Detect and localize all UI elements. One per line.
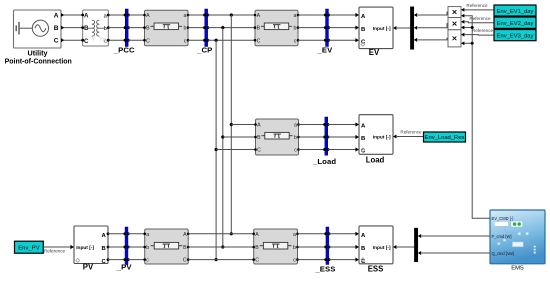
wire _PCC to pi-line 1 bbox=[128, 14, 144, 16]
wire utility to transformer bbox=[64, 39, 83, 41]
svg-text:_PCC: _PCC bbox=[113, 46, 135, 55]
measurement bus _EV bbox=[324, 9, 330, 47]
wire pi-line2 to _EV bus bbox=[298, 39, 325, 41]
wire pi-line1 to _CP bus bbox=[188, 39, 205, 41]
node tap junction top row bbox=[230, 13, 233, 16]
svg-text:C: C bbox=[102, 259, 107, 265]
pi-section line block bottom 2 bbox=[252, 229, 298, 264]
svg-text:B: B bbox=[361, 246, 365, 252]
wire Env_EV2_day reference to X2 bbox=[464, 21, 494, 24]
svg-text:B: B bbox=[361, 136, 365, 142]
port arrow product input bbox=[461, 14, 464, 18]
pi-section line block 1 top bbox=[143, 10, 189, 45]
data block Env_Load_Res bbox=[424, 132, 466, 142]
subsystem block ESS bbox=[359, 226, 393, 265]
wire tap to pi-line mid bbox=[216, 149, 255, 151]
subsystem block Load bbox=[359, 115, 393, 155]
wire pi-line bottom1 to bottom2 bbox=[188, 259, 254, 261]
svg-text:C: C bbox=[257, 148, 261, 154]
wire PV to _PV bus bbox=[108, 246, 125, 248]
wire tap to pi-line mid bbox=[223, 136, 256, 138]
wire _Load bus to Load block bbox=[328, 124, 356, 126]
data block Env_EV2_day bbox=[494, 17, 536, 28]
svg-text:Point-of-Connection: Point-of-Connection bbox=[5, 58, 72, 65]
wire _CP bus to pi-line 2 bbox=[208, 39, 255, 41]
wire Q_cmd to mux bbox=[418, 251, 421, 255]
svg-text:Env_EV1_day: Env_EV1_day bbox=[497, 9, 534, 15]
svg-text:C: C bbox=[54, 38, 59, 45]
svg-text:c: c bbox=[184, 38, 187, 44]
node junction bbox=[471, 26, 474, 29]
svg-text:B: B bbox=[54, 25, 59, 32]
wire _Load bus to Load block bbox=[328, 149, 356, 151]
wire transformer to _PCC bus bbox=[108, 27, 125, 29]
svg-text:a: a bbox=[184, 13, 187, 19]
data block Env_EV3_day bbox=[494, 30, 536, 41]
svg-text:PV: PV bbox=[83, 262, 94, 271]
svg-text:C: C bbox=[255, 258, 259, 264]
svg-text:EV: EV bbox=[369, 48, 380, 57]
svg-text:Env_EV2_day: Env_EV2_day bbox=[497, 21, 534, 27]
wire _CP bus to pi-line 2 bbox=[208, 14, 255, 16]
wire stub to X2 bbox=[464, 27, 472, 29]
svg-text:Env_EV3_day: Env_EV3_day bbox=[497, 33, 534, 39]
wire transformer to _PCC bus bbox=[108, 39, 125, 41]
svg-text:b: b bbox=[293, 245, 296, 251]
wire product to mux bbox=[414, 13, 417, 17]
wire product to mux bbox=[414, 38, 417, 42]
measurement bus _ESS bbox=[324, 227, 330, 265]
svg-text:a: a bbox=[294, 13, 297, 19]
wire Env_Load_Res to Load input bbox=[397, 136, 424, 138]
wire pi-line mid to _Load bus bbox=[299, 149, 325, 151]
svg-text:a: a bbox=[294, 123, 297, 129]
data block Env_PV bbox=[15, 241, 44, 253]
svg-text:_PV: _PV bbox=[116, 262, 133, 271]
svg-text:b: b bbox=[146, 245, 149, 251]
wire pi-line2 to _EV bus bbox=[298, 27, 325, 29]
wire EV input from mux bbox=[397, 27, 411, 29]
subsystem block EV bbox=[359, 7, 393, 49]
svg-text:a: a bbox=[293, 232, 296, 238]
wire Env_EV1_day reference to X1 bbox=[464, 9, 494, 11]
wire ESS input from mux bottom bbox=[397, 246, 415, 248]
svg-text:Input [-]: Input [-] bbox=[373, 135, 391, 141]
svg-text:EMS: EMS bbox=[511, 266, 524, 272]
data block Env_EV1_day bbox=[494, 5, 536, 16]
wire tap to pi-line mid bbox=[231, 124, 255, 126]
wire pi-line mid to _Load bus bbox=[299, 124, 325, 126]
pi-section line block middle bbox=[254, 119, 300, 155]
wire _CP bus to pi-line 2 bbox=[208, 27, 255, 29]
svg-text:Reference: Reference bbox=[44, 249, 66, 254]
wire utility to transformer bbox=[64, 14, 83, 16]
svg-text:A: A bbox=[361, 233, 366, 239]
wire utility to transformer bbox=[64, 27, 83, 29]
svg-text:A: A bbox=[54, 13, 59, 20]
wire _Load bus to Load block bbox=[328, 136, 356, 138]
svg-text:c: c bbox=[294, 38, 297, 44]
measurement bus _CP bbox=[203, 9, 209, 47]
svg-text:A: A bbox=[146, 13, 150, 19]
node junction bbox=[471, 42, 474, 45]
wire _PCC to pi-line 1 bbox=[128, 27, 144, 29]
three-phase transformer block bbox=[81, 10, 109, 46]
svg-text:_Load: _Load bbox=[312, 157, 336, 166]
port arrow product input bbox=[461, 8, 464, 12]
product block X1 bbox=[448, 7, 461, 18]
svg-text:Env_Load_Res: Env_Load_Res bbox=[425, 135, 465, 141]
svg-text:A: A bbox=[255, 232, 259, 238]
svg-text:Input [-]: Input [-] bbox=[373, 26, 391, 32]
wire pi-line1 to _CP bus bbox=[188, 14, 205, 16]
node tap junction top row bbox=[215, 39, 218, 42]
wire product to mux bbox=[414, 26, 417, 30]
wire _PV bus to pi-line bottom1 bbox=[128, 233, 145, 235]
port arrow product input bbox=[461, 20, 464, 24]
svg-text:C: C bbox=[183, 258, 187, 264]
svg-text:Reference: Reference bbox=[472, 28, 494, 33]
svg-text:_EV: _EV bbox=[316, 46, 333, 55]
svg-text:A: A bbox=[361, 124, 366, 130]
svg-text:A: A bbox=[102, 233, 107, 239]
wire pi-line bottom2 to _ESS bus bbox=[298, 233, 326, 235]
wire pi-line bottom1 to bottom2 bbox=[188, 246, 254, 248]
node tap junction top row bbox=[221, 26, 224, 29]
wire pi-line bottom1 to bottom2 bbox=[188, 233, 254, 235]
port arrow product input bbox=[461, 41, 464, 45]
port arrow product input bbox=[461, 33, 464, 37]
subsystem block PV bbox=[74, 226, 109, 265]
svg-text:b: b bbox=[184, 26, 187, 32]
wire _EV bus to EV block bbox=[329, 14, 356, 16]
svg-text:Reference: Reference bbox=[400, 130, 422, 135]
product block X2 bbox=[448, 18, 461, 30]
svg-text:Reference: Reference bbox=[466, 3, 488, 8]
product block X3 bbox=[448, 30, 461, 47]
svg-text:A: A bbox=[361, 14, 366, 20]
pi-section line block 2 top bbox=[254, 10, 300, 45]
svg-text:c: c bbox=[146, 258, 149, 264]
wire pi-line bottom2 to _ESS bus bbox=[298, 246, 326, 248]
svg-text:c: c bbox=[294, 148, 297, 154]
svg-text:A: A bbox=[257, 13, 261, 19]
svg-text:Load: Load bbox=[366, 156, 385, 165]
source block Utility Point-of-Connection bbox=[14, 10, 65, 48]
wire _ESS bus to ESS block bbox=[329, 246, 356, 248]
wire pi-line mid to _Load bus bbox=[299, 136, 325, 138]
wire _PCC to pi-line 1 bbox=[128, 39, 144, 41]
svg-text:b: b bbox=[104, 26, 107, 32]
port arrow product input bbox=[461, 26, 464, 30]
svg-text:B: B bbox=[102, 246, 106, 252]
wire _ESS bus to ESS block bbox=[329, 259, 356, 261]
svg-text:b: b bbox=[294, 135, 297, 141]
svg-text:A: A bbox=[257, 123, 261, 129]
wire Env_EV3_day reference to X3 bbox=[464, 34, 494, 37]
node tap junction bottom row bbox=[215, 258, 218, 261]
node tap junction bottom row bbox=[230, 232, 233, 235]
wire pi-line bottom2 to _ESS bus bbox=[298, 259, 326, 261]
wire PV to _PV bus bbox=[108, 259, 125, 261]
svg-text:B: B bbox=[84, 25, 89, 32]
wire pi-line1 to _CP bus bbox=[188, 27, 205, 29]
svg-text:c: c bbox=[293, 258, 296, 264]
svg-text:Y: Y bbox=[91, 37, 95, 43]
measurement bus _PV bbox=[123, 227, 129, 265]
mux top for EV commands bbox=[410, 7, 413, 50]
svg-text:Utility: Utility bbox=[28, 48, 48, 57]
svg-text:C: C bbox=[146, 38, 150, 44]
svg-text:ESS: ESS bbox=[368, 265, 384, 274]
wire _PV bus to pi-line bottom1 bbox=[128, 246, 145, 248]
pi-section line block bottom 1 flipped bbox=[143, 229, 189, 264]
wire pi-line2 to _EV bus bbox=[298, 14, 325, 16]
wire Env_PV reference to PV bbox=[43, 246, 70, 248]
svg-text:B: B bbox=[146, 26, 150, 32]
svg-text:A: A bbox=[84, 13, 89, 20]
svg-text:Input [-]: Input [-] bbox=[76, 245, 94, 251]
wire PV to _PV bus bbox=[108, 233, 125, 235]
svg-text:Input [-]: Input [-] bbox=[373, 245, 391, 251]
svg-text:_CP: _CP bbox=[196, 46, 212, 55]
wire _PV bus to pi-line bottom1 bbox=[128, 259, 145, 261]
svg-text:C: C bbox=[257, 38, 261, 44]
wire EMS EV_CMD to products bbox=[464, 16, 490, 219]
svg-text:B: B bbox=[257, 135, 261, 141]
svg-text:C: C bbox=[84, 38, 89, 45]
wire _EV bus to EV block bbox=[329, 39, 356, 41]
svg-text:B: B bbox=[257, 26, 261, 32]
node tap junction middle row bbox=[221, 135, 224, 138]
wire _ESS bus to ESS block bbox=[329, 233, 356, 235]
vertical bus tie wire bbox=[222, 28, 224, 247]
svg-text:a: a bbox=[146, 232, 149, 238]
vertical bus tie wire bbox=[230, 15, 232, 234]
measurement bus _Load bbox=[323, 117, 329, 155]
svg-text:EV_CMD [-]: EV_CMD [-] bbox=[492, 216, 514, 221]
svg-text:b: b bbox=[294, 26, 297, 32]
svg-text:P_cmd [W]: P_cmd [W] bbox=[492, 234, 512, 239]
svg-text:A: A bbox=[183, 232, 187, 238]
wire transformer to _PCC bus bbox=[108, 14, 125, 16]
node tap junction bottom row bbox=[221, 245, 224, 248]
svg-text:B: B bbox=[361, 27, 365, 33]
node tap junction middle row bbox=[230, 123, 233, 126]
svg-text:Yg: Yg bbox=[99, 37, 106, 43]
svg-text:Env_PV: Env_PV bbox=[18, 246, 39, 252]
vertical bus tie wire bbox=[215, 40, 217, 259]
node tap junction middle row bbox=[215, 148, 218, 151]
measurement bus _PCC bbox=[124, 9, 130, 47]
svg-text:B: B bbox=[255, 245, 259, 251]
wire stub to X3 bbox=[464, 42, 472, 44]
svg-text:Q_cmd [Var]: Q_cmd [Var] bbox=[492, 251, 515, 256]
svg-text:B: B bbox=[183, 245, 187, 251]
mux bottom for ESS commands bbox=[414, 228, 417, 262]
controller block EMS bbox=[490, 210, 545, 264]
svg-text:_ESS: _ESS bbox=[314, 265, 335, 274]
wire P_cmd to mux bbox=[418, 234, 421, 238]
wire _EV bus to EV block bbox=[329, 27, 356, 29]
